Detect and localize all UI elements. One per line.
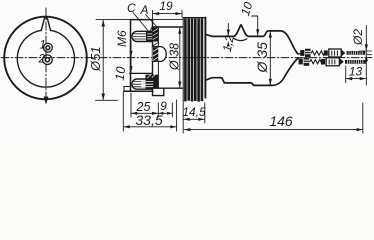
svg-text:13: 13 (349, 65, 363, 79)
step below flange right (153, 88, 164, 95)
svg-text:C: C (127, 1, 136, 15)
vertical centerline of end view (45, 8, 47, 100)
end view outer circle (4, 17, 87, 100)
dimension 33,5 (122, 92, 124, 131)
svg-text:A: A (140, 3, 149, 17)
dimension 10 (slot offset) (130, 41, 132, 73)
inner wall line (157, 27, 159, 88)
dimension 25 (130, 93, 132, 117)
svg-text:M6: M6 (115, 30, 129, 47)
upper lead (298, 53, 303, 55)
lower lead (298, 58, 300, 60)
svg-text:Ø2: Ø2 (351, 29, 365, 46)
leader C (133, 13, 150, 33)
svg-text:146: 146 (269, 113, 293, 129)
leader A (146, 15, 158, 28)
dimension 14,5 (204, 103, 206, 123)
svg-text:14,5: 14,5 (182, 105, 206, 119)
dimension O38 (179, 27, 181, 88)
upper M6 slot (132, 31, 152, 41)
central contact stud (153, 47, 167, 62)
svg-text:Ø 35: Ø 35 (254, 42, 270, 74)
lower slot with recess (130, 72, 153, 74)
ribbed boot (182, 18, 184, 101)
hatching at upper slot (146, 32, 153, 41)
svg-text:33,5: 33,5 (135, 112, 162, 128)
body top profile with bump (206, 25, 298, 54)
svg-text:10: 10 (113, 66, 129, 82)
dimension 1,2 (227, 24, 229, 36)
dimension 10 (bump) (257, 16, 259, 36)
svg-text:Ø51: Ø51 (88, 46, 103, 72)
body bottom profile (206, 58, 298, 85)
dimension O35 (269, 31, 271, 85)
svg-text:2: 2 (38, 54, 46, 66)
end view inner circle (gap at top for key notch) (17, 30, 74, 87)
flange side view outline (131, 19, 153, 21)
dimension 19 (152, 11, 154, 20)
view-direction arrow at circle bottom (44, 97, 49, 105)
dimension 146 (182, 101, 184, 134)
terminal 1 (44, 43, 53, 52)
boot lip inner arc (234, 38, 247, 40)
O38 cylinder section (153, 26, 184, 28)
section wall hatch band (153, 28, 158, 42)
svg-text:9: 9 (160, 99, 167, 113)
dimension 9 (171, 103, 173, 117)
svg-text:Ø 38: Ø 38 (168, 43, 182, 71)
dimension O51 (96, 19, 131, 21)
terminal 2 (43, 55, 53, 65)
svg-text:1: 1 (39, 40, 45, 52)
hatching at lower slot (146, 75, 159, 89)
key notch at top (41, 17, 50, 31)
dimension 13 (345, 66, 347, 83)
svg-text:19: 19 (159, 0, 173, 13)
main horizontal centerline (1, 57, 372, 59)
dimension O2 (365, 26, 367, 86)
